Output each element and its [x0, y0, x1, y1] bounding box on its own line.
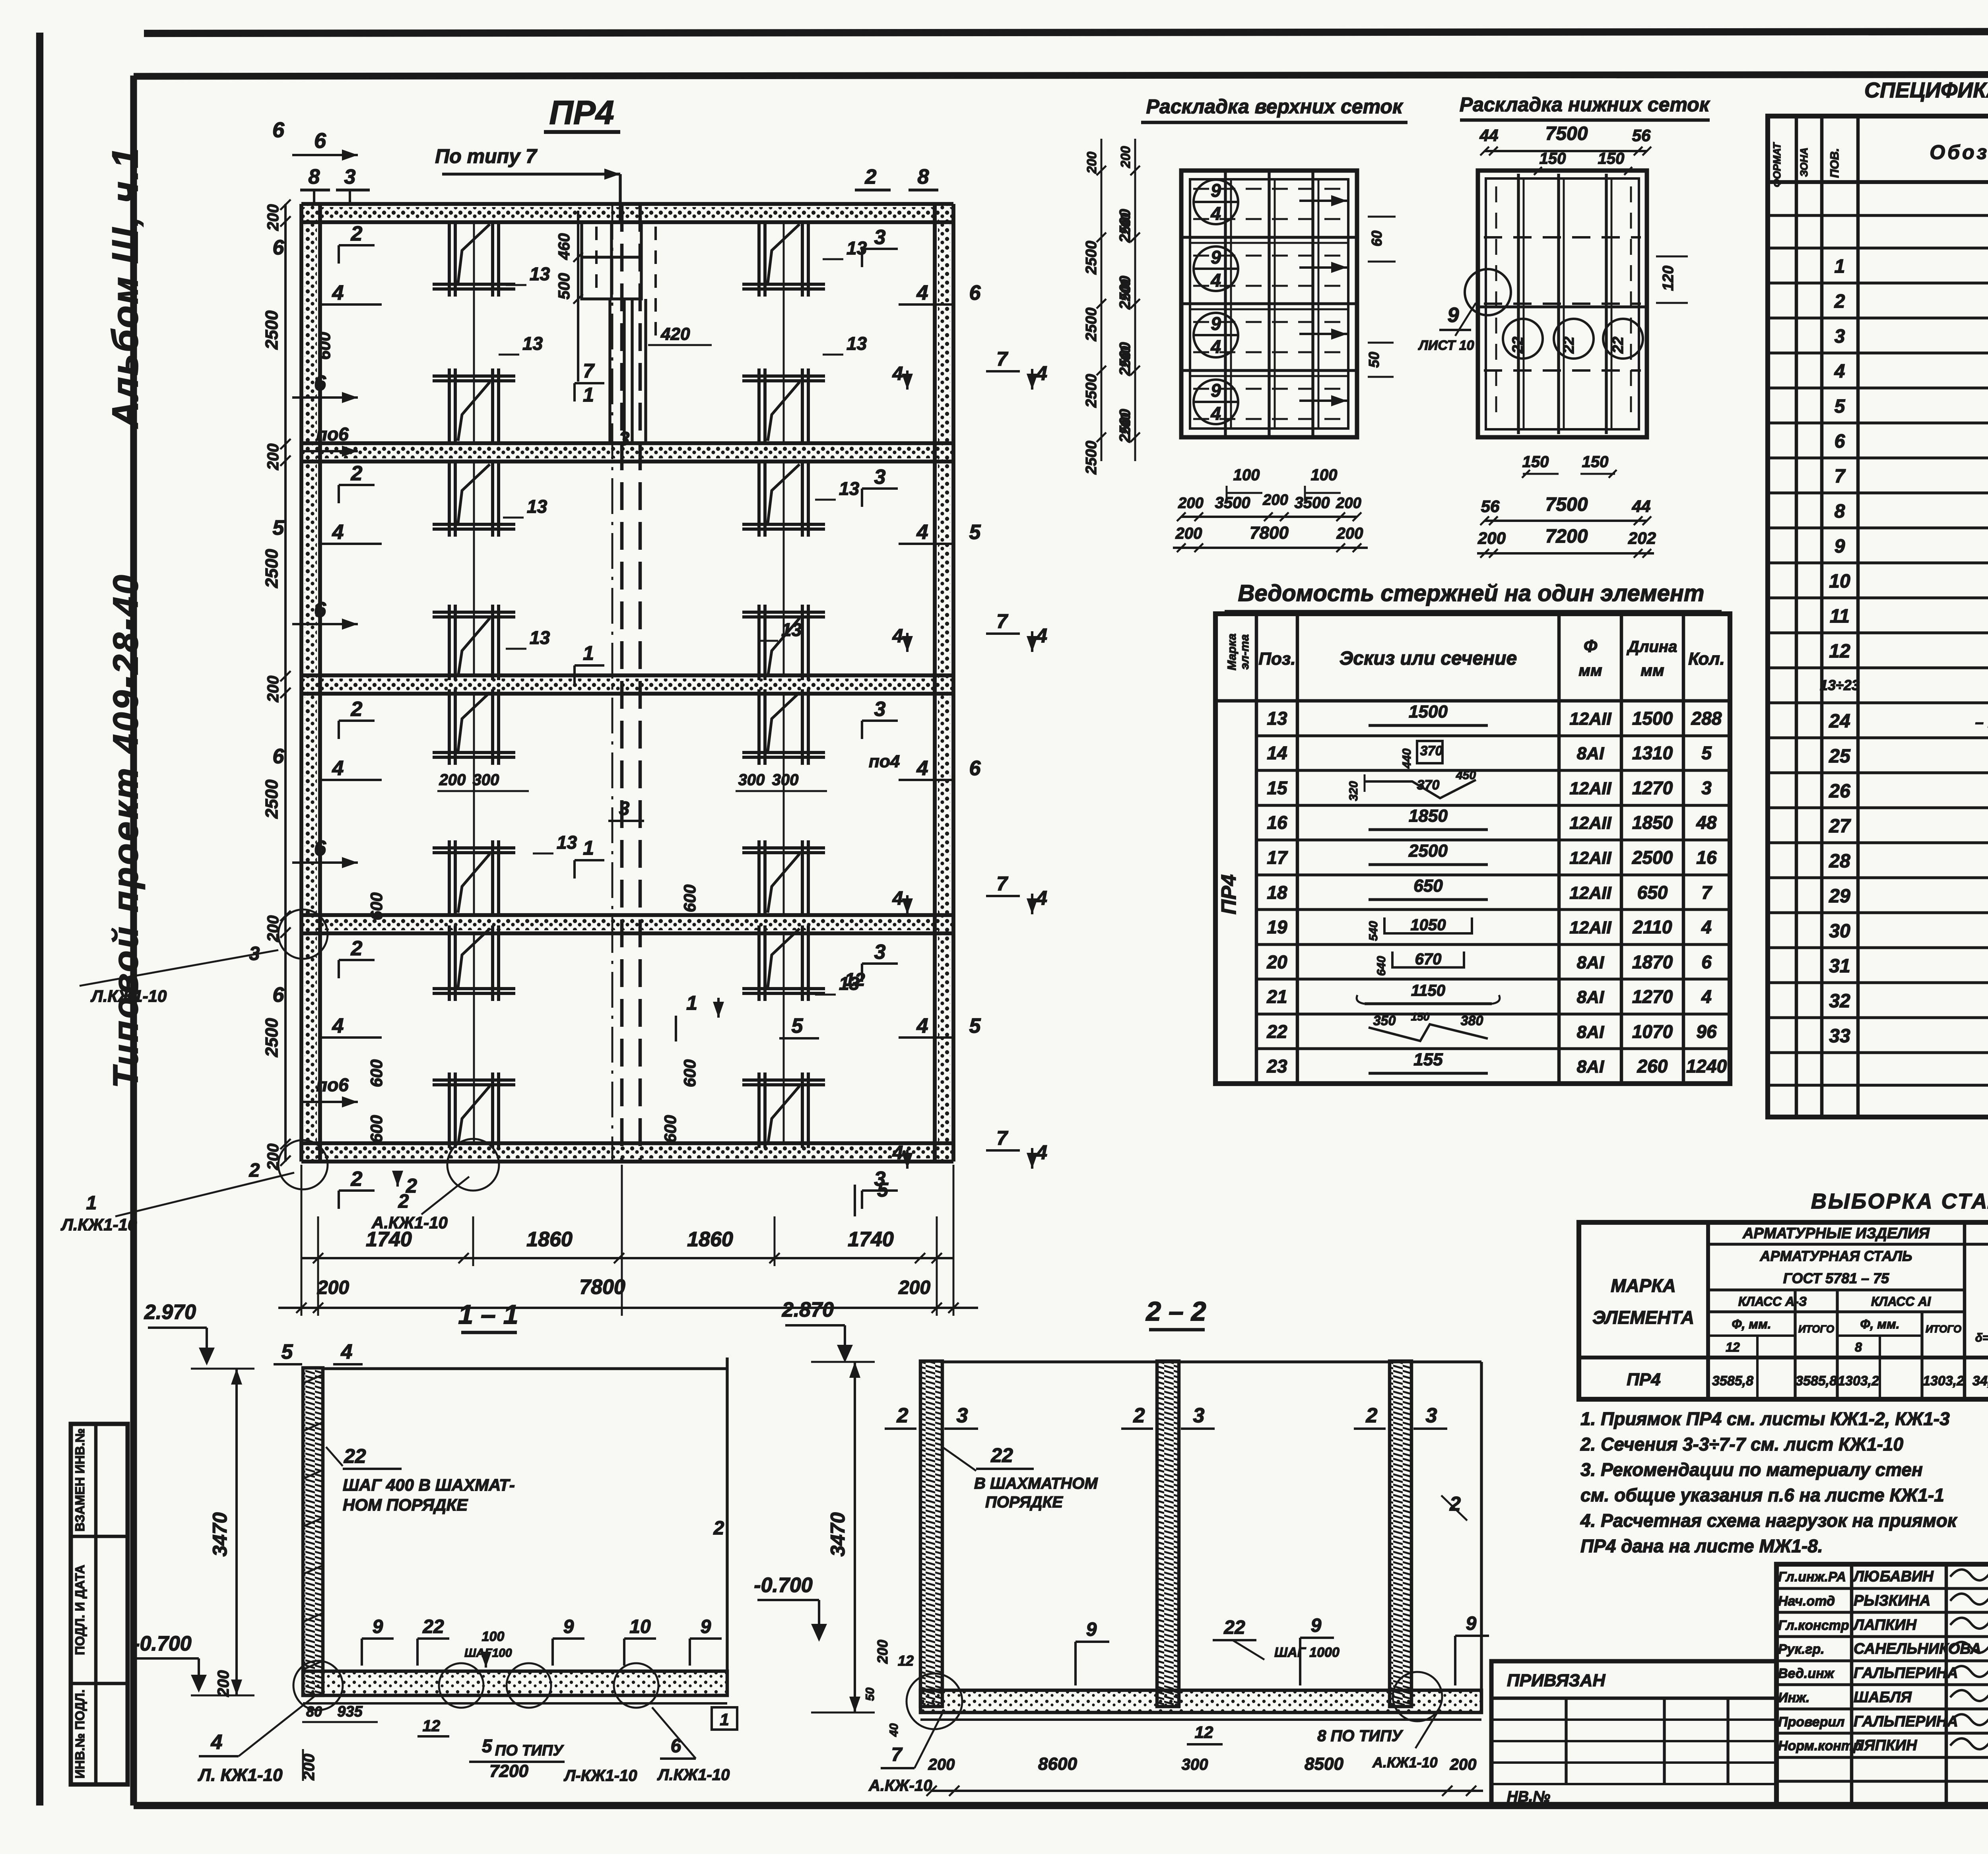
svg-text:50: 50: [864, 1687, 877, 1701]
svg-text:6: 6: [314, 129, 326, 153]
svg-text:200: 200: [1336, 525, 1363, 542]
svg-text:22: 22: [1266, 1021, 1287, 1042]
svg-text:эл-та: эл-та: [1238, 634, 1251, 670]
svg-text:13÷23: 13÷23: [1820, 677, 1860, 693]
svg-text:650: 650: [1637, 882, 1668, 903]
svg-text:1303,2: 1303,2: [1923, 1373, 1964, 1389]
svg-text:3470: 3470: [827, 1512, 849, 1556]
svg-text:19: 19: [1267, 917, 1287, 937]
svg-text:4: 4: [332, 521, 344, 544]
svg-text:6: 6: [273, 236, 285, 259]
svg-text:22: 22: [1510, 337, 1526, 354]
svg-text:1303,2: 1303,2: [1838, 1373, 1879, 1389]
svg-text:МАРКА: МАРКА: [1611, 1275, 1676, 1296]
svg-text:ПРИВЯЗАН: ПРИВЯЗАН: [1507, 1671, 1606, 1690]
svg-text:200: 200: [215, 1670, 232, 1697]
svg-text:3: 3: [1701, 778, 1712, 798]
svg-text:Л-КЖ1-10: Л-КЖ1-10: [563, 1767, 637, 1784]
svg-text:12АII: 12АII: [1569, 848, 1611, 868]
svg-text:600: 600: [680, 1059, 699, 1087]
svg-text:2. Сечения 3-3÷7-7 см. лист: 2. Сечения 3-3÷7-7 см. лист КЖ1-10: [1580, 1434, 1904, 1455]
svg-text:3: 3: [1835, 326, 1845, 347]
svg-text:22: 22: [1223, 1617, 1245, 1638]
svg-text:7800: 7800: [579, 1276, 625, 1299]
svg-text:3: 3: [957, 1404, 968, 1427]
svg-text:7200: 7200: [1545, 526, 1588, 547]
svg-text:1500: 1500: [1409, 702, 1448, 721]
svg-text:80: 80: [306, 1703, 322, 1720]
svg-text:КЛАСС А-З: КЛАСС А-З: [1738, 1294, 1807, 1309]
svg-text:4: 4: [332, 757, 344, 780]
svg-text:4: 4: [332, 1014, 344, 1038]
svg-text:3: 3: [874, 698, 886, 721]
svg-text:Вед.инж: Вед.инж: [1778, 1666, 1835, 1681]
svg-text:1070: 1070: [1632, 1021, 1673, 1042]
svg-text:22: 22: [990, 1444, 1013, 1466]
svg-text:ПР4 дана на листе МЖ1-8.: ПР4 дана на листе МЖ1-8.: [1580, 1536, 1823, 1556]
svg-text:350: 350: [1373, 1013, 1396, 1028]
svg-text:Ф: Ф: [1584, 636, 1598, 656]
svg-text:ПОРЯДКЕ: ПОРЯДКЕ: [985, 1493, 1063, 1511]
svg-text:120: 120: [1660, 266, 1677, 291]
svg-text:мм: мм: [1640, 662, 1664, 679]
svg-text:200: 200: [1450, 1756, 1477, 1773]
svg-text:200: 200: [1178, 495, 1203, 512]
svg-text:4: 4: [892, 363, 903, 384]
svg-text:370: 370: [1417, 778, 1440, 793]
svg-text:29: 29: [1829, 886, 1850, 907]
svg-text:4: 4: [211, 1731, 223, 1754]
svg-text:3: 3: [619, 429, 630, 450]
svg-text:ЗОНА: ЗОНА: [1798, 147, 1810, 177]
svg-text:Марка: Марка: [1225, 634, 1239, 671]
svg-text:7800: 7800: [1250, 523, 1289, 543]
svg-text:– КЖИ1-МН1÷МН4,МС1÷МС5: – КЖИ1-МН1÷МН4,МС1÷МС5: [1975, 714, 1988, 731]
svg-text:1: 1: [720, 1710, 729, 1729]
svg-text:4: 4: [916, 757, 928, 780]
svg-text:56: 56: [1481, 497, 1500, 516]
svg-text:По типу 7: По типу 7: [435, 145, 538, 167]
svg-text:Альбом Ш, ч.1: Альбом Ш, ч.1: [105, 146, 146, 429]
svg-text:1500: 1500: [1632, 708, 1673, 729]
svg-text:3: 3: [874, 941, 886, 964]
svg-text:1870: 1870: [1632, 952, 1673, 972]
svg-text:НОМ ПОРЯДКЕ: НОМ ПОРЯДКЕ: [343, 1495, 468, 1514]
svg-text:12: 12: [1195, 1723, 1213, 1742]
svg-text:ПОВ.: ПОВ.: [1828, 148, 1841, 178]
svg-text:100: 100: [1233, 466, 1260, 484]
svg-text:2: 2: [249, 1160, 260, 1181]
svg-text:96: 96: [1696, 1021, 1717, 1042]
svg-text:10: 10: [629, 1616, 651, 1637]
svg-text:1: 1: [86, 1193, 97, 1214]
svg-text:2: 2: [351, 222, 363, 245]
svg-text:см. общие указания п.6 на ли: см. общие указания п.6 на листе КЖ1-1: [1580, 1485, 1944, 1505]
svg-text:ВЫБОРКА СТАЛИ НА ОДИН ЭЛЕМ: ВЫБОРКА СТАЛИ НА ОДИН ЭЛЕМЕНТ, КГ: [1811, 1189, 1988, 1213]
svg-text:5: 5: [273, 516, 285, 539]
svg-text:3585,8: 3585,8: [1796, 1373, 1837, 1389]
svg-text:9: 9: [1211, 247, 1221, 268]
svg-text:Л.КЖ1-10: Л.КЖ1-10: [90, 987, 167, 1005]
svg-text:8: 8: [918, 165, 929, 188]
svg-text:2500: 2500: [262, 310, 282, 350]
svg-text:3: 3: [344, 165, 356, 188]
svg-text:8АI: 8АI: [1577, 953, 1604, 972]
svg-text:8: 8: [1855, 1340, 1862, 1354]
svg-text:ШАБЛЯ: ШАБЛЯ: [1854, 1689, 1912, 1706]
svg-text:ЛЮБАВИН: ЛЮБАВИН: [1852, 1568, 1934, 1585]
svg-text:21: 21: [1266, 986, 1287, 1007]
svg-text:4: 4: [1210, 203, 1221, 224]
svg-text:7200: 7200: [489, 1761, 528, 1781]
svg-text:300: 300: [738, 771, 765, 789]
svg-text:12АII: 12АII: [1569, 779, 1611, 798]
svg-text:370: 370: [1420, 743, 1443, 758]
svg-text:34,8: 34,8: [1972, 1373, 1988, 1389]
svg-text:Длина: Длина: [1627, 638, 1677, 656]
svg-text:7500: 7500: [1545, 494, 1588, 515]
svg-text:1310: 1310: [1632, 743, 1673, 763]
svg-text:12АII: 12АII: [1569, 709, 1611, 729]
svg-text:А.КЖ1-10: А.КЖ1-10: [1372, 1754, 1438, 1771]
svg-text:7: 7: [583, 360, 595, 382]
svg-text:3: 3: [619, 798, 630, 819]
svg-text:6: 6: [314, 598, 326, 622]
svg-text:ПР4: ПР4: [1217, 874, 1241, 914]
svg-text:ПР4: ПР4: [549, 94, 614, 131]
svg-text:Проверил: Проверил: [1778, 1714, 1844, 1730]
svg-text:13: 13: [846, 238, 867, 258]
svg-text:9: 9: [701, 1616, 711, 1637]
svg-text:8: 8: [309, 165, 320, 188]
svg-text:4: 4: [1210, 270, 1221, 291]
svg-text:13: 13: [846, 333, 867, 354]
svg-text:1: 1: [1835, 256, 1845, 277]
svg-text:4: 4: [1210, 336, 1221, 357]
svg-text:420: 420: [660, 324, 690, 344]
svg-text:600: 600: [680, 884, 699, 912]
svg-text:6: 6: [1701, 952, 1712, 972]
svg-text:9: 9: [1835, 536, 1845, 557]
svg-text:ГАЛЬПЕРИНА: ГАЛЬПЕРИНА: [1854, 1665, 1958, 1681]
svg-text:44: 44: [1632, 497, 1651, 516]
svg-text:4: 4: [341, 1340, 353, 1363]
svg-text:200: 200: [874, 1640, 891, 1664]
svg-text:4: 4: [1701, 986, 1712, 1007]
svg-text:Ведомость стержней на один: Ведомость стержней на один элемент: [1238, 580, 1705, 606]
svg-text:2: 2: [351, 937, 363, 960]
svg-text:12: 12: [423, 1717, 441, 1735]
svg-text:Поз.: Поз.: [1258, 649, 1295, 669]
svg-text:600: 600: [367, 1115, 386, 1143]
svg-text:2500: 2500: [1083, 441, 1100, 475]
svg-text:33: 33: [1829, 1026, 1850, 1047]
svg-text:200: 200: [439, 771, 466, 789]
svg-text:7: 7: [1835, 466, 1846, 487]
svg-text:600: 600: [661, 1115, 679, 1143]
svg-text:4: 4: [1210, 403, 1221, 424]
svg-text:24: 24: [1829, 711, 1850, 732]
svg-text:2500: 2500: [1117, 409, 1134, 443]
svg-text:4: 4: [916, 521, 928, 544]
svg-text:202: 202: [1628, 529, 1656, 547]
svg-text:1240: 1240: [1686, 1056, 1727, 1076]
svg-text:5: 5: [877, 1179, 889, 1201]
svg-text:2500: 2500: [262, 549, 282, 588]
svg-text:Л.КЖ1-10: Л.КЖ1-10: [60, 1215, 137, 1234]
svg-text:100: 100: [482, 1629, 505, 1644]
svg-text:Инж.: Инж.: [1778, 1690, 1809, 1705]
svg-text:200: 200: [317, 1277, 349, 1298]
svg-text:27: 27: [1829, 816, 1851, 837]
svg-text:13: 13: [530, 627, 550, 648]
svg-text:ГОСТ 5781 – 75: ГОСТ 5781 – 75: [1783, 1270, 1889, 1286]
svg-text:1. Приямок ПР4 см. листы КЖ1-: 1. Приямок ПР4 см. листы КЖ1-2, КЖ1-3: [1580, 1408, 1950, 1429]
svg-text:2: 2: [1834, 291, 1845, 312]
svg-text:40: 40: [887, 1723, 901, 1737]
svg-text:11: 11: [1830, 606, 1850, 627]
svg-text:АРМАТУРНАЯ СТАЛЬ: АРМАТУРНАЯ СТАЛЬ: [1760, 1248, 1912, 1264]
svg-text:5: 5: [1701, 743, 1712, 763]
svg-text:7: 7: [996, 873, 1008, 895]
svg-text:150: 150: [1522, 453, 1549, 471]
svg-text:6: 6: [314, 836, 326, 860]
svg-text:450: 450: [1456, 769, 1476, 782]
svg-text:2500: 2500: [1117, 342, 1134, 376]
svg-text:мм: мм: [1578, 662, 1602, 679]
svg-text:2: 2: [865, 165, 877, 188]
svg-text:288: 288: [1691, 708, 1722, 729]
svg-text:13: 13: [781, 619, 802, 640]
svg-text:2.970: 2.970: [144, 1301, 196, 1324]
svg-text:13: 13: [557, 832, 577, 853]
svg-text:2500: 2500: [1083, 241, 1100, 275]
svg-text:2: 2: [1366, 1404, 1378, 1427]
svg-text:по6: по6: [316, 1074, 349, 1095]
svg-text:12: 12: [845, 969, 865, 990]
svg-text:2500: 2500: [262, 1018, 282, 1057]
svg-text:3: 3: [874, 465, 886, 489]
svg-text:2110: 2110: [1633, 917, 1672, 937]
svg-text:2500: 2500: [1083, 374, 1100, 408]
svg-text:Кол.: Кол.: [1688, 649, 1725, 669]
svg-text:А.КЖ-10: А.КЖ-10: [868, 1777, 932, 1794]
svg-text:12: 12: [1726, 1340, 1740, 1354]
svg-text:9: 9: [1211, 313, 1221, 334]
svg-text:1150: 1150: [1411, 982, 1445, 999]
svg-text:14: 14: [1267, 743, 1287, 763]
svg-text:9: 9: [1211, 380, 1221, 401]
svg-text:1860: 1860: [526, 1228, 573, 1251]
svg-text:17: 17: [1267, 847, 1288, 868]
svg-text:7: 7: [996, 610, 1008, 632]
svg-text:5: 5: [482, 1736, 493, 1756]
svg-text:Обозначение: Обозначение: [1930, 141, 1988, 163]
svg-text:КЛАСС АI: КЛАСС АI: [1871, 1294, 1931, 1309]
svg-text:640: 640: [1375, 956, 1388, 976]
svg-text:60: 60: [1369, 231, 1385, 246]
svg-text:9: 9: [563, 1616, 574, 1637]
svg-text:ШАГ 400 В ШАХМАТ-: ШАГ 400 В ШАХМАТ-: [343, 1476, 515, 1494]
svg-text:50: 50: [1366, 352, 1382, 368]
svg-text:200: 200: [264, 676, 282, 703]
svg-text:ЭЛЕМЕНТА: ЭЛЕМЕНТА: [1592, 1307, 1694, 1328]
svg-text:4: 4: [1036, 362, 1047, 384]
svg-text:600: 600: [367, 1059, 386, 1087]
svg-text:Норм.контр: Норм.контр: [1778, 1738, 1862, 1753]
svg-text:200: 200: [928, 1756, 955, 1773]
svg-text:2: 2: [897, 1404, 909, 1427]
svg-text:1270: 1270: [1632, 986, 1673, 1007]
svg-text:13: 13: [530, 264, 550, 284]
svg-text:4: 4: [892, 626, 903, 647]
svg-text:по6: по6: [316, 424, 349, 444]
svg-text:8 ПО ТИПУ: 8 ПО ТИПУ: [1317, 1727, 1403, 1745]
svg-text:260: 260: [1637, 1056, 1668, 1076]
svg-text:3470: 3470: [209, 1512, 231, 1556]
svg-text:12АII: 12АII: [1569, 883, 1611, 903]
svg-text:ГАЛЬПЕРИНА: ГАЛЬПЕРИНА: [1854, 1713, 1958, 1730]
svg-text:300: 300: [772, 771, 799, 789]
svg-text:600: 600: [367, 892, 386, 920]
svg-text:4: 4: [916, 281, 928, 304]
svg-text:Эскиз или сечение: Эскиз или сечение: [1340, 648, 1517, 669]
svg-text:ШАГ 1000: ШАГ 1000: [1274, 1645, 1340, 1660]
svg-text:8АI: 8АI: [1577, 1022, 1604, 1042]
svg-text:-0.700: -0.700: [754, 1574, 813, 1597]
svg-text:Рук.гр.: Рук.гр.: [1778, 1642, 1825, 1657]
svg-text:23: 23: [1266, 1056, 1287, 1076]
svg-text:2.870: 2.870: [782, 1298, 834, 1321]
svg-text:ЛЯПКИН: ЛЯПКИН: [1852, 1737, 1918, 1754]
svg-text:ЛИСТ 10: ЛИСТ 10: [1417, 338, 1474, 353]
svg-text:150: 150: [1411, 1010, 1430, 1023]
svg-text:150: 150: [1598, 150, 1625, 167]
svg-text:ВЗАМЕН ИНВ.№: ВЗАМЕН ИНВ.№: [73, 1428, 87, 1532]
svg-text:СПЕЦИФИКАЦИЯ ЭЛЕМЕНТОВ МОНОЛ: СПЕЦИФИКАЦИЯ ЭЛЕМЕНТОВ МОНОЛИТНОЙ КОНСТР…: [1864, 78, 1988, 102]
svg-text:12АII: 12АII: [1569, 813, 1611, 833]
svg-text:56: 56: [1632, 126, 1651, 145]
svg-text:13: 13: [839, 478, 860, 499]
svg-text:4: 4: [1036, 887, 1047, 909]
svg-text:1850: 1850: [1409, 806, 1448, 826]
svg-text:13: 13: [527, 496, 547, 517]
svg-text:4: 4: [332, 281, 344, 304]
svg-text:2500: 2500: [1117, 209, 1134, 243]
svg-text:30: 30: [1829, 921, 1850, 942]
svg-text:4. Расчетная схема нагрузок: 4. Расчетная схема нагрузок на приямок: [1580, 1510, 1958, 1531]
svg-text:1740: 1740: [366, 1228, 412, 1251]
svg-text:2500: 2500: [1083, 308, 1100, 342]
svg-text:2500: 2500: [1408, 841, 1448, 861]
svg-text:4: 4: [1036, 624, 1047, 647]
svg-text:Л.КЖ1-10: Л.КЖ1-10: [657, 1766, 730, 1784]
svg-text:6: 6: [1835, 431, 1845, 452]
svg-text:Ф, мм.: Ф, мм.: [1732, 1317, 1771, 1331]
svg-text:3: 3: [874, 226, 886, 249]
svg-text:8АI: 8АI: [1577, 1057, 1604, 1076]
svg-text:8600: 8600: [1038, 1754, 1077, 1774]
svg-text:8500: 8500: [1305, 1754, 1343, 1774]
svg-text:200: 200: [264, 204, 282, 231]
svg-text:6: 6: [273, 745, 285, 768]
svg-text:155: 155: [1413, 1050, 1443, 1069]
svg-text:540: 540: [1367, 921, 1380, 941]
svg-text:440: 440: [1400, 749, 1413, 769]
svg-text:2500: 2500: [262, 780, 282, 819]
svg-text:13: 13: [522, 333, 543, 354]
svg-text:4: 4: [1036, 1141, 1047, 1164]
svg-text:935: 935: [337, 1703, 363, 1720]
svg-text:3500: 3500: [1295, 494, 1330, 512]
svg-text:7: 7: [1701, 882, 1712, 903]
svg-text:2500: 2500: [1117, 276, 1134, 310]
svg-text:4: 4: [1701, 917, 1712, 937]
svg-text:НВ.№: НВ.№: [1507, 1788, 1550, 1805]
svg-text:9: 9: [373, 1616, 383, 1637]
svg-text:13: 13: [1267, 708, 1287, 729]
svg-text:ИТОГО: ИТОГО: [1798, 1323, 1834, 1335]
svg-text:22: 22: [1561, 337, 1577, 354]
svg-text:ПОДЛ. И ДАТА: ПОДЛ. И ДАТА: [73, 1565, 87, 1655]
svg-text:200: 200: [1477, 529, 1506, 547]
svg-text:ФОРМАТ: ФОРМАТ: [1771, 142, 1783, 187]
svg-text:3585,8: 3585,8: [1712, 1373, 1753, 1389]
svg-text:26: 26: [1829, 781, 1850, 802]
svg-text:44: 44: [1479, 126, 1499, 145]
svg-text:Раскладка нижних сеток: Раскладка нижних сеток: [1460, 93, 1710, 116]
svg-text:2 – 2: 2 – 2: [1145, 1296, 1206, 1327]
svg-text:12АII: 12АII: [1569, 918, 1611, 937]
svg-text:16: 16: [1696, 847, 1717, 868]
svg-text:12: 12: [898, 1652, 914, 1669]
svg-text:9: 9: [1466, 1613, 1477, 1634]
svg-text:8: 8: [1835, 501, 1845, 522]
svg-text:Нач.отд: Нач.отд: [1778, 1594, 1835, 1609]
svg-text:200: 200: [264, 444, 282, 471]
svg-text:300: 300: [473, 771, 499, 789]
svg-text:200: 200: [1262, 492, 1288, 508]
svg-text:В ШАХМАТНОМ: В ШАХМАТНОМ: [974, 1475, 1098, 1492]
svg-text:1740: 1740: [848, 1228, 894, 1251]
svg-text:1: 1: [583, 837, 594, 859]
svg-text:Типовой проект 409-28-40: Типовой проект 409-28-40: [106, 572, 145, 1088]
svg-text:2: 2: [351, 1168, 363, 1191]
svg-text:3. Рекомендации по материалу: 3. Рекомендации по материалу стен: [1580, 1459, 1923, 1480]
svg-text:7: 7: [996, 348, 1008, 370]
svg-text:7500: 7500: [1545, 123, 1588, 144]
svg-text:6: 6: [969, 757, 981, 780]
svg-text:5: 5: [792, 1014, 804, 1038]
svg-text:200: 200: [1336, 495, 1361, 512]
svg-text:32: 32: [1829, 991, 1850, 1012]
svg-text:5: 5: [282, 1340, 293, 1363]
svg-text:1: 1: [583, 642, 594, 664]
svg-text:22: 22: [344, 1445, 366, 1467]
svg-text:4: 4: [1834, 361, 1845, 382]
svg-text:5: 5: [969, 521, 981, 544]
svg-text:300: 300: [1182, 1756, 1208, 1773]
svg-text:6: 6: [273, 983, 285, 1007]
svg-text:2: 2: [351, 698, 363, 721]
svg-text:460: 460: [555, 233, 573, 260]
svg-text:ИНВ.№ ПОДЛ.: ИНВ.№ ПОДЛ.: [73, 1689, 87, 1778]
svg-text:2: 2: [713, 1518, 724, 1539]
svg-text:ЛАПКИН: ЛАПКИН: [1852, 1617, 1917, 1633]
svg-text:δ=6: δ=6: [1975, 1331, 1988, 1344]
svg-text:22: 22: [422, 1616, 444, 1637]
svg-text:500: 500: [555, 273, 573, 300]
